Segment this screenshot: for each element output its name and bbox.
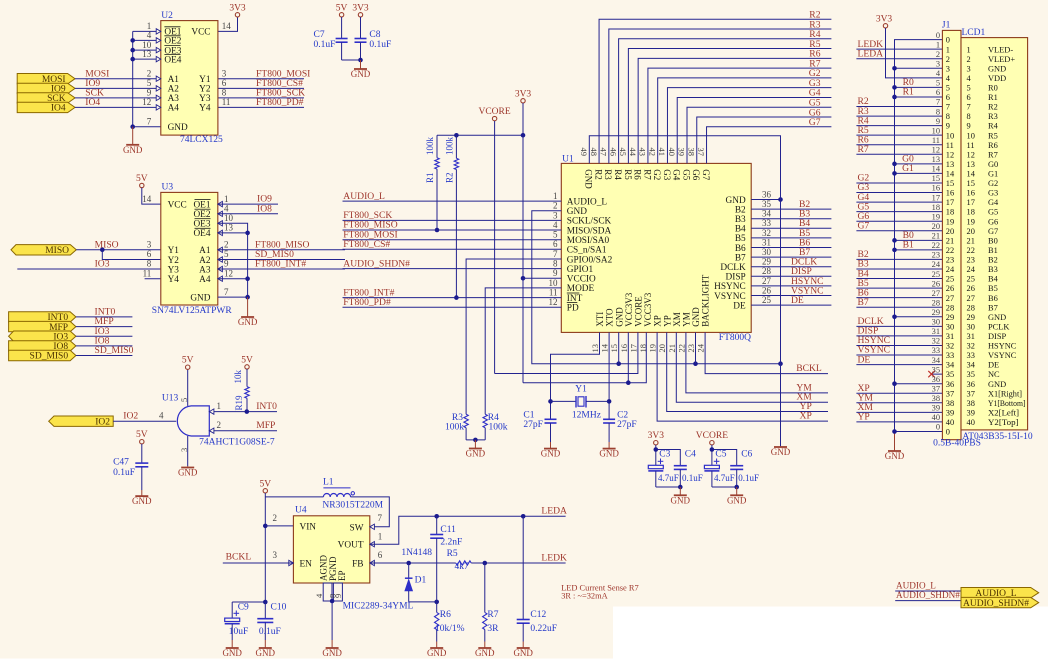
svg-text:22: 22 [932, 241, 940, 250]
svg-text:0: 0 [946, 428, 950, 437]
svg-text:G3: G3 [662, 169, 672, 180]
wire MOSI to U2 A1 [75, 78, 161, 80]
svg-text:3V3: 3V3 [352, 3, 369, 13]
svg-text:1: 1 [553, 191, 558, 201]
junction R3R4 gnd [473, 438, 478, 443]
svg-text:GND: GND [190, 293, 210, 303]
svg-text:18: 18 [967, 208, 975, 217]
wire J1 GND vertical [895, 40, 943, 432]
wire U1 pin23 GND down [695, 332, 697, 363]
svg-text:C3: C3 [659, 450, 670, 460]
svg-text:39: 39 [967, 408, 975, 417]
svg-text:15: 15 [967, 179, 975, 188]
power 3V3 C8 [358, 13, 362, 17]
svg-text:VCC: VCC [168, 200, 187, 210]
capacitor C10 0.1uF [264, 602, 266, 619]
svg-text:28: 28 [932, 298, 940, 307]
svg-text:31: 31 [967, 332, 975, 341]
svg-text:LCD1: LCD1 [962, 28, 986, 38]
svg-text:C2: C2 [617, 411, 628, 421]
wire J1 pin3 GND [895, 67, 943, 69]
svg-text:30: 30 [762, 247, 772, 257]
wire J1 G6 [856, 220, 942, 222]
svg-text:29: 29 [762, 257, 772, 267]
power 3V3 R1R2 [521, 99, 525, 103]
svg-text:4: 4 [224, 204, 229, 214]
capacitor C8 0.1uF [360, 17, 362, 39]
wire J1 G4 [856, 201, 942, 203]
svg-text:2.2nF: 2.2nF [440, 538, 462, 548]
wire IO4 to U2 A4 [75, 106, 161, 108]
svg-text:YM: YM [796, 382, 812, 393]
svg-text:X2[Left]: X2[Left] [988, 408, 1019, 417]
svg-text:7: 7 [553, 249, 558, 259]
svg-text:32: 32 [932, 337, 940, 346]
wire U13 GND pin [187, 436, 189, 466]
svg-text:4k7: 4k7 [455, 562, 470, 572]
svg-text:100k: 100k [445, 137, 455, 156]
svg-text:12MHz: 12MHz [572, 411, 601, 421]
svg-text:2: 2 [553, 201, 558, 211]
wire U13 input2 MFP [209, 430, 277, 432]
svg-text:40: 40 [967, 418, 975, 427]
junction R1 FT800_MISO [435, 228, 440, 233]
svg-text:24: 24 [946, 265, 955, 274]
svg-text:8: 8 [946, 112, 950, 121]
svg-text:1: 1 [967, 45, 971, 54]
power 3V3 J1 [883, 24, 887, 28]
wire U2 Y1 FT800_MOSI [218, 78, 304, 80]
svg-text:YP: YP [662, 315, 672, 327]
port flag INT0 [9, 312, 76, 322]
svg-text:FT800_INT#: FT800_INT# [255, 259, 306, 270]
wire J1 R6 [856, 144, 942, 146]
wire D1 anode to R6 node [409, 601, 437, 603]
svg-text:Y3: Y3 [168, 265, 180, 275]
port flag AUDIO_L [961, 588, 1039, 598]
wire L1 to SW [351, 497, 390, 527]
svg-text:R0: R0 [988, 83, 998, 92]
svg-text:27: 27 [967, 294, 975, 303]
power VCORE C5 [710, 441, 714, 445]
power 3V3 C3 [654, 441, 658, 445]
wire U1 pin7 GPIO0 to R3 [466, 259, 561, 414]
wire U1 pin21 XM [676, 332, 828, 402]
wire J1 R2 [856, 106, 942, 108]
power VCORE [492, 116, 496, 120]
port flag SCK [17, 93, 75, 103]
junction R2 FT800_INT# [454, 295, 459, 300]
svg-text:9: 9 [936, 117, 940, 126]
wire U1 top R4 [619, 39, 832, 164]
wire J1 B4 [856, 278, 942, 280]
svg-text:HSYNC: HSYNC [714, 282, 746, 292]
svg-text:A1: A1 [168, 75, 180, 85]
svg-text:19: 19 [648, 344, 658, 353]
wire 5V rail U4 [264, 493, 266, 602]
svg-text:R5: R5 [623, 169, 633, 180]
svg-text:6: 6 [222, 78, 227, 88]
junction R2 top [454, 133, 459, 138]
svg-text:B7: B7 [735, 253, 746, 263]
wire U3 Y4 stub [145, 278, 161, 280]
power 5V U13 [186, 365, 190, 369]
svg-text:FT800Q: FT800Q [719, 333, 751, 343]
svg-text:3: 3 [147, 240, 152, 250]
svg-text:31: 31 [946, 332, 954, 341]
wire U2 Y2 FT800_CS# [218, 87, 304, 89]
svg-text:13: 13 [590, 344, 600, 353]
svg-text:30: 30 [932, 318, 940, 327]
svg-text:25: 25 [967, 275, 975, 284]
junction R7 top [483, 561, 488, 566]
svg-text:16: 16 [946, 189, 954, 198]
svg-text:R5: R5 [447, 549, 458, 559]
junction crystal right [607, 399, 612, 404]
junction U2 OE2 [130, 38, 135, 43]
svg-text:8: 8 [967, 112, 971, 121]
svg-text:G7: G7 [701, 169, 711, 180]
junction C5 top [710, 447, 715, 452]
wire J1 pin6 R1 [895, 96, 943, 98]
wire J1 R4 [856, 125, 942, 127]
svg-text:37: 37 [932, 384, 940, 393]
port flag AUDIO_SHDN# [961, 597, 1039, 607]
power 5V R19 [245, 365, 249, 369]
ground U4 EP [331, 640, 333, 648]
svg-text:EN: EN [300, 559, 313, 569]
svg-text:74AHCT1G08SE-7: 74AHCT1G08SE-7 [199, 438, 275, 448]
svg-text:D1: D1 [415, 575, 427, 585]
svg-text:24: 24 [932, 260, 941, 269]
svg-text:4: 4 [147, 30, 152, 40]
svg-text:46: 46 [608, 148, 618, 157]
svg-text:IO3: IO3 [95, 259, 110, 270]
svg-text:XP: XP [653, 315, 663, 327]
svg-text:R1: R1 [903, 87, 914, 98]
capacitor C2 27pF [603, 418, 615, 420]
wire U1 top R7 [648, 68, 831, 163]
svg-text:GND: GND [691, 307, 701, 327]
svg-text:0.1uF: 0.1uF [682, 473, 703, 483]
svg-text:C8: C8 [369, 30, 380, 40]
svg-text:7: 7 [378, 513, 383, 523]
svg-text:GND: GND [322, 648, 342, 658]
connector J1 0.5B-40PBS [942, 30, 961, 439]
wire J1 DCLK [856, 325, 942, 327]
svg-text:A3: A3 [199, 265, 211, 275]
svg-text:27: 27 [762, 276, 772, 286]
svg-text:3: 3 [936, 59, 940, 68]
svg-text:GPIO1: GPIO1 [567, 265, 594, 275]
svg-text:35: 35 [932, 365, 940, 374]
svg-text:NR3015T220M: NR3015T220M [322, 501, 383, 511]
svg-text:13: 13 [946, 160, 954, 169]
svg-text:R6: R6 [440, 610, 451, 620]
junction gnd rail pin15 [616, 361, 621, 366]
svg-text:GND: GND [771, 447, 791, 457]
svg-text:SW: SW [350, 523, 364, 533]
svg-text:34: 34 [946, 361, 955, 370]
svg-text:19: 19 [946, 217, 954, 226]
svg-text:R4: R4 [613, 169, 623, 180]
svg-text:MISO: MISO [95, 239, 119, 250]
ground R6 [436, 642, 438, 649]
svg-text:26: 26 [932, 279, 940, 288]
junction 3v3 rail pin16 [626, 380, 631, 385]
svg-text:CS_n/SA1: CS_n/SA1 [567, 246, 607, 256]
wire MISO branch to U3 Y2 [102, 250, 161, 260]
ground C5 C6 [736, 487, 738, 495]
port flag SD_MIS0 [9, 350, 76, 360]
svg-text:GND: GND [222, 648, 242, 658]
svg-text:10: 10 [967, 131, 975, 140]
wire C5 C6 bottom join [712, 486, 737, 488]
wire U1 pin14 XTO to crystal [608, 332, 610, 419]
wire AUDIO_L [895, 590, 961, 592]
svg-text:21: 21 [667, 344, 677, 353]
wire MFP [76, 326, 132, 328]
svg-text:GND: GND [727, 495, 747, 505]
svg-text:AT043B35-15I-10: AT043B35-15I-10 [962, 432, 1032, 442]
svg-text:31: 31 [762, 237, 771, 247]
junction C4 bottom [678, 485, 683, 490]
junction R19 INT0 [245, 409, 250, 414]
ground C47 [141, 490, 143, 496]
svg-text:B4: B4 [735, 225, 746, 235]
wire J1 VSYNC [856, 354, 942, 356]
svg-text:32: 32 [967, 342, 975, 351]
svg-text:10k/1%: 10k/1% [435, 624, 465, 634]
svg-text:C10: C10 [271, 603, 287, 613]
svg-text:B4: B4 [988, 275, 999, 284]
junction EP gnd [330, 599, 335, 604]
svg-text:1: 1 [217, 401, 222, 411]
wire U1 top G7 [707, 127, 832, 164]
svg-text:A3: A3 [168, 94, 180, 104]
wire U2 Y3 FT800_SCK [218, 97, 304, 99]
svg-text:GND: GND [885, 451, 905, 461]
svg-text:17: 17 [967, 198, 975, 207]
wire U1 top G2 [658, 78, 832, 164]
svg-text:G7: G7 [858, 220, 870, 231]
port flag MFP [9, 321, 76, 331]
svg-text:20: 20 [946, 227, 954, 236]
ground U2 [132, 127, 134, 145]
port flag IO9 [17, 83, 75, 93]
svg-text:21: 21 [967, 236, 975, 245]
svg-text:Y2: Y2 [168, 256, 180, 266]
svg-text:5: 5 [179, 398, 189, 402]
wire J1 R7 [856, 153, 942, 155]
svg-text:AUDIO_SHDN#: AUDIO_SHDN# [963, 599, 1029, 609]
svg-text:44: 44 [628, 148, 638, 157]
wire FB LEDK [370, 562, 456, 564]
svg-text:10k: 10k [233, 370, 243, 384]
svg-text:SD_MIS0: SD_MIS0 [30, 352, 69, 362]
svg-text:33: 33 [967, 351, 975, 360]
svg-text:GND: GND [178, 468, 198, 478]
wire U2 OE bus [132, 31, 134, 126]
wire U1 B3 [751, 218, 831, 220]
svg-text:R1: R1 [425, 172, 435, 183]
port flag IO4 [17, 102, 75, 112]
svg-text:34: 34 [967, 361, 976, 370]
svg-text:10: 10 [549, 278, 559, 288]
svg-text:38: 38 [686, 148, 696, 157]
svg-text:7: 7 [147, 116, 152, 126]
svg-text:Y3: Y3 [199, 94, 211, 104]
wire U1 HSYNC [751, 285, 831, 287]
svg-text:33: 33 [762, 218, 772, 228]
wire FT800_SCK to U1 pin3 [343, 219, 562, 221]
svg-text:3V3: 3V3 [876, 14, 893, 24]
svg-text:9: 9 [553, 268, 558, 278]
svg-text:VCCIO: VCCIO [567, 275, 596, 285]
port flag MISO bidirectional [11, 245, 76, 255]
svg-text:37: 37 [696, 148, 706, 157]
svg-text:38: 38 [946, 399, 954, 408]
svg-text:10: 10 [932, 126, 940, 135]
svg-text:28: 28 [967, 303, 975, 312]
svg-text:B2: B2 [988, 256, 998, 265]
svg-text:6: 6 [378, 550, 383, 560]
svg-text:VCC: VCC [191, 28, 210, 38]
wire U1 B6 [751, 247, 831, 249]
wire J1 B6 [856, 297, 942, 299]
svg-text:LEDA: LEDA [541, 506, 567, 517]
capacitor C12 0.22uF [522, 516, 524, 619]
svg-text:100k: 100k [489, 423, 508, 433]
svg-text:38: 38 [967, 399, 975, 408]
svg-text:8: 8 [936, 107, 940, 116]
svg-text:25: 25 [946, 275, 954, 284]
svg-text:GPIO0/SA2: GPIO0/SA2 [567, 255, 613, 265]
svg-text:2: 2 [273, 513, 278, 523]
svg-text:40: 40 [932, 413, 940, 422]
svg-text:36: 36 [967, 380, 975, 389]
svg-text:Y1: Y1 [199, 75, 211, 85]
svg-text:G2: G2 [988, 179, 998, 188]
svg-text:G3: G3 [988, 189, 998, 198]
svg-text:B6: B6 [988, 294, 998, 303]
svg-text:G5: G5 [681, 169, 691, 180]
svg-text:AUDIO_L: AUDIO_L [567, 197, 608, 207]
wire INT0 [76, 316, 132, 318]
svg-text:3: 3 [553, 210, 558, 220]
wire U3 OE3-OE4-A4-GND bus [218, 223, 248, 297]
svg-text:MISO: MISO [45, 246, 69, 256]
svg-text:3: 3 [967, 64, 971, 73]
wire VOUT to LEDA rail [370, 516, 566, 544]
wire FT800_MISO to U1 pin4 [343, 229, 562, 231]
svg-text:GND: GND [614, 307, 624, 327]
svg-text:5: 5 [946, 83, 950, 92]
junction MISO Y2 branch [100, 248, 105, 253]
svg-text:R6: R6 [988, 141, 998, 150]
wire U1 top G5 [687, 107, 831, 163]
svg-text:2: 2 [946, 55, 950, 64]
wire U3 OE1 IO9 [218, 203, 278, 205]
svg-text:GND: GND [351, 69, 371, 79]
svg-text:10: 10 [946, 131, 954, 140]
svg-text:21: 21 [932, 232, 940, 241]
wire U1 DCLK [751, 266, 831, 268]
svg-text:LEDK: LEDK [541, 552, 567, 563]
wire U1 top G6 [697, 117, 832, 163]
svg-text:X1[Right]: X1[Right] [988, 389, 1022, 398]
wire J1 YM [856, 402, 942, 404]
svg-text:37: 37 [946, 389, 954, 398]
wire EP to gnd [331, 601, 333, 640]
svg-text:VSYNC: VSYNC [988, 351, 1017, 360]
svg-text:7: 7 [224, 287, 229, 297]
wire J1 B5 [856, 287, 942, 289]
wire U1 pin13 XTI to crystal [551, 332, 600, 419]
svg-text:PCLK: PCLK [988, 322, 1009, 331]
wire J1 B7 [856, 306, 942, 308]
power 5V U3 [140, 183, 144, 187]
svg-text:3R: 3R [487, 624, 499, 634]
wire BCKL to EN [223, 562, 294, 564]
ground U1 right [780, 446, 782, 448]
svg-text:G7: G7 [809, 117, 821, 128]
wire U1 pin19 XP [657, 332, 828, 421]
svg-text:100k: 100k [425, 137, 435, 156]
svg-text:5V: 5V [241, 355, 253, 365]
svg-text:37: 37 [967, 389, 975, 398]
wire U1 pin24 BACKLIGHT BCKL [705, 332, 828, 373]
svg-text:IO8: IO8 [257, 203, 272, 214]
svg-text:11: 11 [143, 268, 152, 278]
port flag IO8 [9, 341, 76, 351]
svg-text:47: 47 [599, 148, 609, 157]
svg-text:28: 28 [946, 303, 954, 312]
wire J1 DISP [856, 335, 942, 337]
svg-text:4.7uF: 4.7uF [714, 473, 735, 483]
wire U1 pin49 GND top [589, 136, 780, 447]
svg-text:U3: U3 [162, 183, 174, 193]
svg-text:8: 8 [147, 259, 152, 269]
svg-text:6: 6 [147, 249, 152, 259]
svg-text:23: 23 [967, 256, 975, 265]
svg-text:GND: GND [466, 449, 486, 459]
svg-text:VLED-: VLED- [988, 45, 1013, 54]
svg-text:34: 34 [932, 356, 941, 365]
wire U1 pin16 pin18 VCC3V3 3V3 rail [627, 332, 629, 382]
svg-text:FT800_PD#: FT800_PD# [343, 297, 391, 308]
svg-text:SN74LV125ATPWR: SN74LV125ATPWR [152, 306, 233, 316]
capacitor C47 0.1uF [141, 444, 143, 463]
svg-text:0: 0 [936, 31, 940, 40]
junction C6 bottom [734, 485, 739, 490]
wire J1 XP [856, 392, 942, 394]
buffer U3 SN74LV125ATPWR [161, 192, 218, 305]
svg-text:5: 5 [224, 249, 229, 259]
svg-text:INT0: INT0 [256, 401, 277, 412]
port flag IO3 [9, 331, 76, 341]
svg-text:25: 25 [762, 295, 772, 305]
svg-text:12: 12 [932, 145, 940, 154]
ic U1 FT800Q [561, 163, 751, 332]
wire J1 YP [856, 421, 942, 423]
svg-text:DISP: DISP [988, 332, 1006, 341]
wire 5V to U3 VCC [142, 188, 161, 204]
svg-text:35: 35 [967, 370, 975, 379]
svg-text:15: 15 [946, 179, 954, 188]
svg-text:DE: DE [733, 301, 746, 311]
svg-text:R7: R7 [858, 144, 869, 155]
